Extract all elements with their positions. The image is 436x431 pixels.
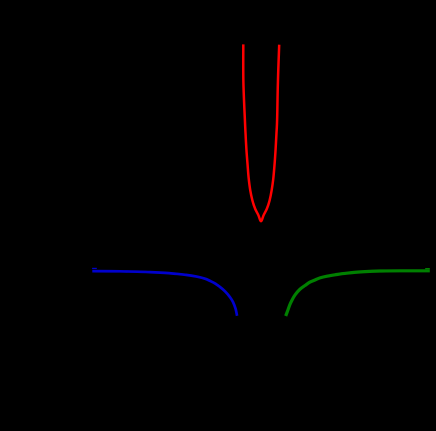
blue curve (left branch) xyxy=(92,271,237,316)
green curve end dash xyxy=(425,268,430,270)
blue curve start dash xyxy=(92,267,97,269)
green curve (right branch) xyxy=(286,271,430,316)
red curve (narrow U, center x=261) xyxy=(243,44,279,221)
